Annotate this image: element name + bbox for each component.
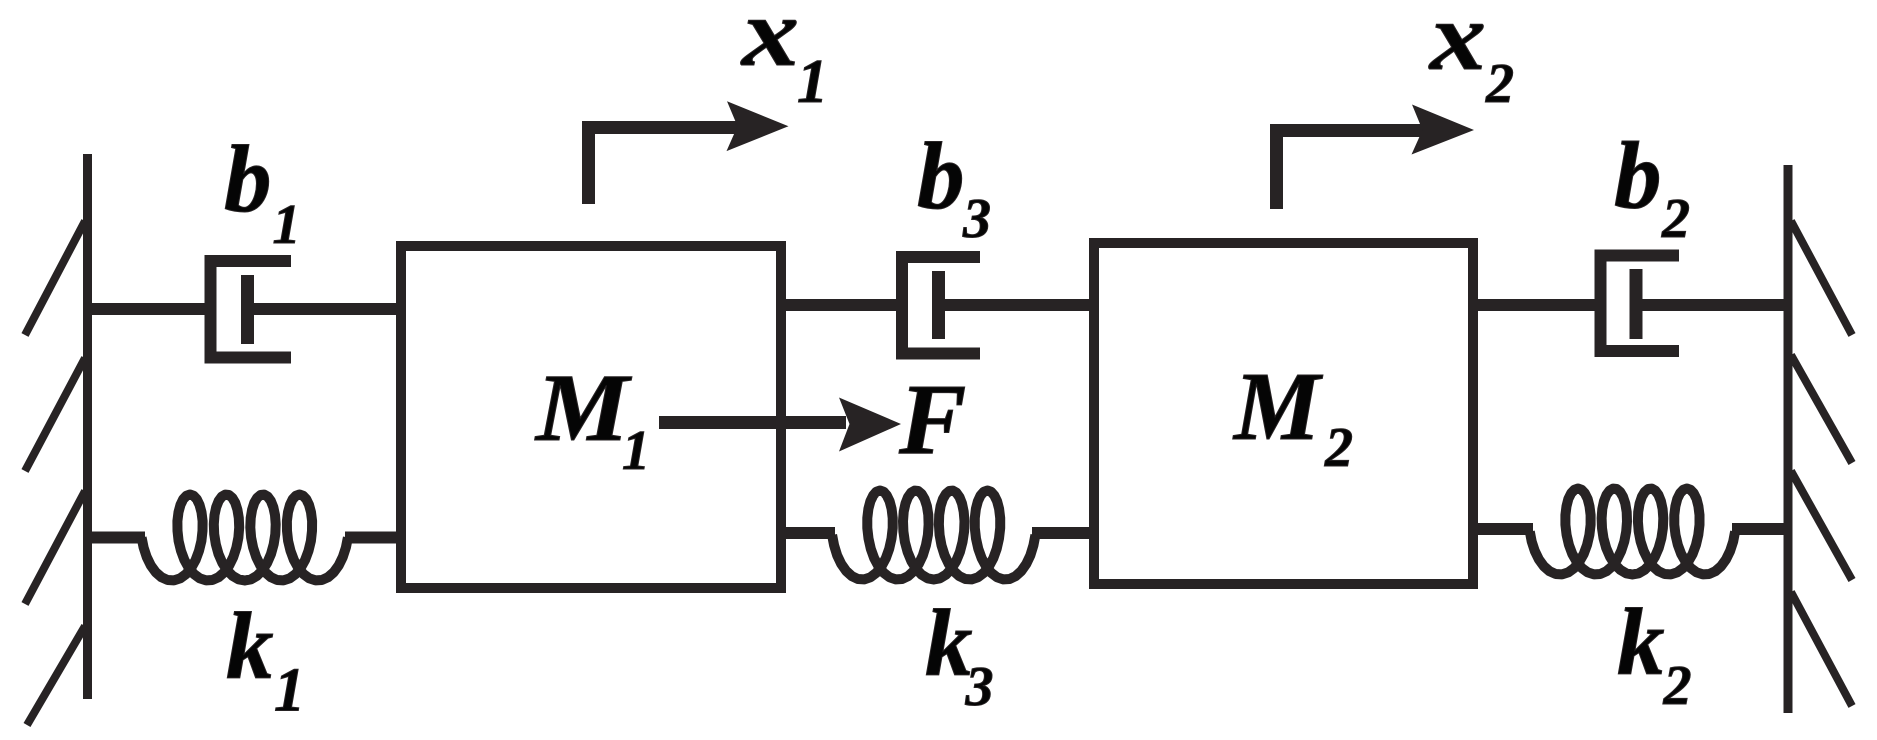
svg-text:k: k	[1617, 589, 1665, 695]
right wall hatch 2	[1791, 355, 1852, 463]
left wall hatch 1	[25, 221, 85, 335]
svg-text:1: 1	[622, 420, 650, 482]
damper b2 piston	[1630, 269, 1643, 339]
svg-text:k: k	[226, 593, 274, 699]
wire: spring k1 to M1	[345, 532, 401, 544]
right wall hatch 1	[1791, 221, 1852, 335]
spring k2	[1530, 489, 1735, 575]
svg-text:M: M	[534, 354, 633, 461]
x2 arrowhead	[1412, 105, 1475, 155]
svg-text:2: 2	[1663, 655, 1692, 717]
mass M2 box	[1094, 243, 1473, 584]
right wall hatch 3	[1791, 471, 1852, 580]
wire: M2 to spring k2	[1473, 523, 1533, 535]
left wall hatch 2	[25, 358, 85, 471]
force F arrowhead	[839, 398, 901, 452]
spring k3	[832, 491, 1035, 580]
svg-text:M: M	[1232, 353, 1323, 460]
left wall	[83, 154, 92, 699]
svg-text:x: x	[740, 0, 799, 86]
left wall hatch 4	[27, 626, 85, 725]
left wall hatch 3	[25, 491, 85, 604]
svg-text:x: x	[1428, 0, 1486, 90]
x1 arrowhead	[727, 101, 789, 151]
svg-text:b: b	[917, 123, 965, 229]
spring k1	[142, 495, 348, 581]
x1 arrow L-line	[589, 128, 741, 205]
damper b3 rod (wire to M2)	[938, 299, 1094, 311]
damper b1 cup	[211, 261, 292, 358]
wire: spring k2 to right wall	[1732, 523, 1788, 535]
right wall	[1784, 165, 1793, 713]
force F arrow shaft	[659, 416, 846, 429]
wire: M1 to spring k3	[781, 527, 835, 539]
svg-text:b: b	[1614, 123, 1662, 229]
damper b3 cup	[902, 257, 980, 354]
mass M1 box	[401, 246, 781, 588]
x2 arrow L-line	[1277, 131, 1426, 210]
wire: wall to damper b1	[87, 303, 210, 315]
damper b1 rod (wire to M1)	[247, 303, 401, 315]
svg-text:F: F	[898, 363, 966, 475]
svg-text:2: 2	[1485, 53, 1514, 115]
svg-text:1: 1	[797, 48, 828, 116]
svg-text:1: 1	[274, 657, 305, 725]
damper b3 piston	[932, 271, 945, 339]
svg-text:3: 3	[965, 656, 994, 718]
wire: wall to spring k1	[87, 532, 145, 544]
svg-text:1: 1	[273, 194, 301, 256]
svg-text:2: 2	[1661, 188, 1690, 250]
wire: spring k3 to M2	[1032, 527, 1094, 539]
wire: M1 to damper b3	[781, 299, 902, 311]
svg-text:2: 2	[1324, 417, 1353, 479]
damper b2 cup	[1601, 256, 1680, 352]
svg-text:b: b	[224, 126, 272, 232]
svg-text:3: 3	[962, 188, 991, 250]
wire: M2 to damper b2	[1473, 299, 1601, 311]
right wall hatch 4	[1791, 592, 1852, 706]
damper b2 rod (wire to right wall)	[1636, 299, 1788, 311]
damper b1 piston	[241, 275, 254, 344]
